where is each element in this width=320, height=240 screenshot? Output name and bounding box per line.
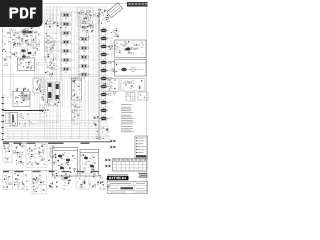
page background [0, 0, 149, 198]
dashed pilot line left [10, 28, 12, 98]
dashed pilot line lower left [3, 95, 5, 140]
caption line above logo [107, 174, 128, 176]
accumulator cluster [93, 116, 100, 125]
pilot manifold box [13, 92, 30, 107]
pump suction cluster [9, 47, 40, 59]
top center risers [63, 9, 99, 30]
sub-diagram bucket circuit [26, 143, 47, 168]
cylinder port ellipse E12 [100, 115, 108, 120]
hose rupture cluster [19, 113, 34, 127]
pilot valve box [40, 105, 58, 122]
mid box [45, 38, 59, 58]
pilot filter dashed box [77, 8, 93, 28]
sub-diagram offset circuit [61, 174, 72, 190]
detail figure small D [138, 92, 148, 100]
left margin ticks [2, 97, 4, 140]
section divider line [3, 141, 112, 143]
dashed travel valve block [46, 79, 63, 106]
bank side stubs [109, 45, 111, 95]
lower-left links [8, 114, 46, 140]
row2 top rule [3, 170, 59, 172]
cylinder port ellipse E9 [100, 91, 108, 96]
sub-box pilot circuit [53, 148, 78, 177]
tank return manifold [3, 110, 44, 112]
top small cluster left [46, 19, 60, 28]
title bar top right [127, 2, 148, 7]
diagonal stamp label [107, 3, 123, 18]
spool valve V12 [78, 72, 90, 79]
sub-diagram blade circuit [49, 173, 58, 188]
cylinder port ellipse E6 [100, 67, 108, 72]
pilot filter cluster top [78, 10, 92, 27]
revision table [113, 159, 148, 172]
cylinder port ellipse E5 [100, 59, 108, 64]
solenoid block top [97, 9, 110, 24]
top bus wires [44, 6, 108, 28]
boxed valve stack B [72, 102, 82, 124]
sub-diagram arm circuit [13, 144, 25, 166]
left horizontal feeds [2, 73, 98, 96]
drawing frame border [3, 4, 147, 194]
detail figure small A [103, 79, 119, 92]
sub-diagram boom circuit [3, 145, 12, 163]
sub-diagram corner figure [100, 178, 110, 190]
cylinder port ellipse E8 [100, 83, 108, 88]
cylinder port ellipse E1 [100, 27, 108, 32]
row2 caption labels [3, 171, 99, 172]
pilot hatch block [22, 94, 30, 100]
pdf badge [0, 0, 43, 27]
spool valve V4 [60, 39, 72, 46]
travel block fittings [41, 81, 59, 106]
frame edge figures [2, 37, 9, 66]
filter block F1 [33, 78, 44, 93]
travel spool B [55, 82, 60, 100]
aux narrow box [6, 113, 9, 124]
oil cooler block [18, 58, 35, 71]
top left piping [44, 10, 62, 28]
pump regulator cluster [7, 27, 40, 47]
check valve row [16, 88, 29, 92]
left-center cross taps [44, 20, 62, 116]
filter to manifold wires [35, 93, 40, 110]
pump outlet wires [34, 60, 46, 80]
bank outlet chevrons [106, 140, 117, 168]
mid gap figures [46, 33, 57, 50]
bank side taps [108, 38, 113, 118]
cylinder port ellipse E11 [100, 107, 108, 112]
mid lower figures [45, 56, 59, 77]
sub-diagram combined circuit [32, 171, 47, 194]
to-boom text right [139, 173, 148, 178]
spool valve V6 [60, 57, 72, 64]
aux col figures [81, 26, 95, 39]
sub-diagram extra B [89, 174, 102, 190]
row1 figure stems [6, 146, 56, 164]
dashed control valve boundary [62, 12, 79, 78]
spool valve V8 [78, 36, 90, 43]
boxed valve stack A [72, 78, 82, 100]
cylinder port ellipse E2 [100, 35, 108, 40]
center-low dashed risers [85, 80, 94, 126]
spool valve V1 [60, 12, 72, 18]
legend parts list [121, 104, 134, 132]
relief valve cluster top right [111, 28, 119, 37]
aux valve cluster center [80, 13, 96, 35]
detail box swing device [115, 40, 147, 58]
detail figure small C [126, 93, 135, 102]
spool valve V10 [78, 54, 90, 61]
notes box [135, 136, 148, 158]
title block [108, 182, 148, 194]
cylinder port ellipse E7 [100, 75, 108, 80]
travel block dashed risers [65, 79, 71, 108]
spool valve V9 [78, 45, 90, 52]
left-center long risers [45, 8, 57, 140]
row1 caption labels [3, 143, 90, 144]
right feed wire [111, 40, 113, 95]
spool valve V11 [78, 63, 90, 70]
sub-box travel pilot [80, 150, 99, 177]
mid sparse cluster [45, 41, 56, 70]
return bus wires [5, 121, 110, 139]
center long risers [61, 8, 100, 140]
row2 figure stems [6, 174, 100, 190]
center risers 2 [75, 30, 94, 125]
spool valve V3 [60, 30, 72, 37]
sub-diagram option circuit [3, 173, 13, 190]
valve bank feed lines [102, 28, 106, 122]
sub-diagram breaker circuit [14, 173, 30, 191]
spool valve V7 [60, 66, 72, 73]
pilot pump P2 [21, 46, 33, 58]
detail box travel device [115, 60, 147, 77]
valve row feeds [50, 15, 60, 69]
top row dots [45, 23, 62, 29]
travel spool A [48, 82, 53, 100]
center cross wires [60, 36, 100, 76]
detail figure small B [121, 79, 145, 92]
cylinder port ellipse E10 [100, 99, 108, 104]
cylinder port ellipse E4 [100, 51, 108, 56]
cylinder port ellipse E3 [100, 43, 108, 48]
swing motor M1 [10, 113, 18, 127]
spool valve V5 [60, 48, 72, 55]
spool valve V2 [60, 21, 72, 28]
travel feed connectors [96, 126, 109, 140]
pump regulator extra [13, 34, 34, 45]
sub-diagram swing circuit [48, 146, 56, 163]
hitachi logo [107, 176, 129, 180]
pump P1 ellipse pair [17, 26, 38, 44]
sub-diagram extra A [76, 174, 89, 190]
bank side fittings [109, 45, 120, 95]
pump piping mesh [12, 33, 40, 47]
